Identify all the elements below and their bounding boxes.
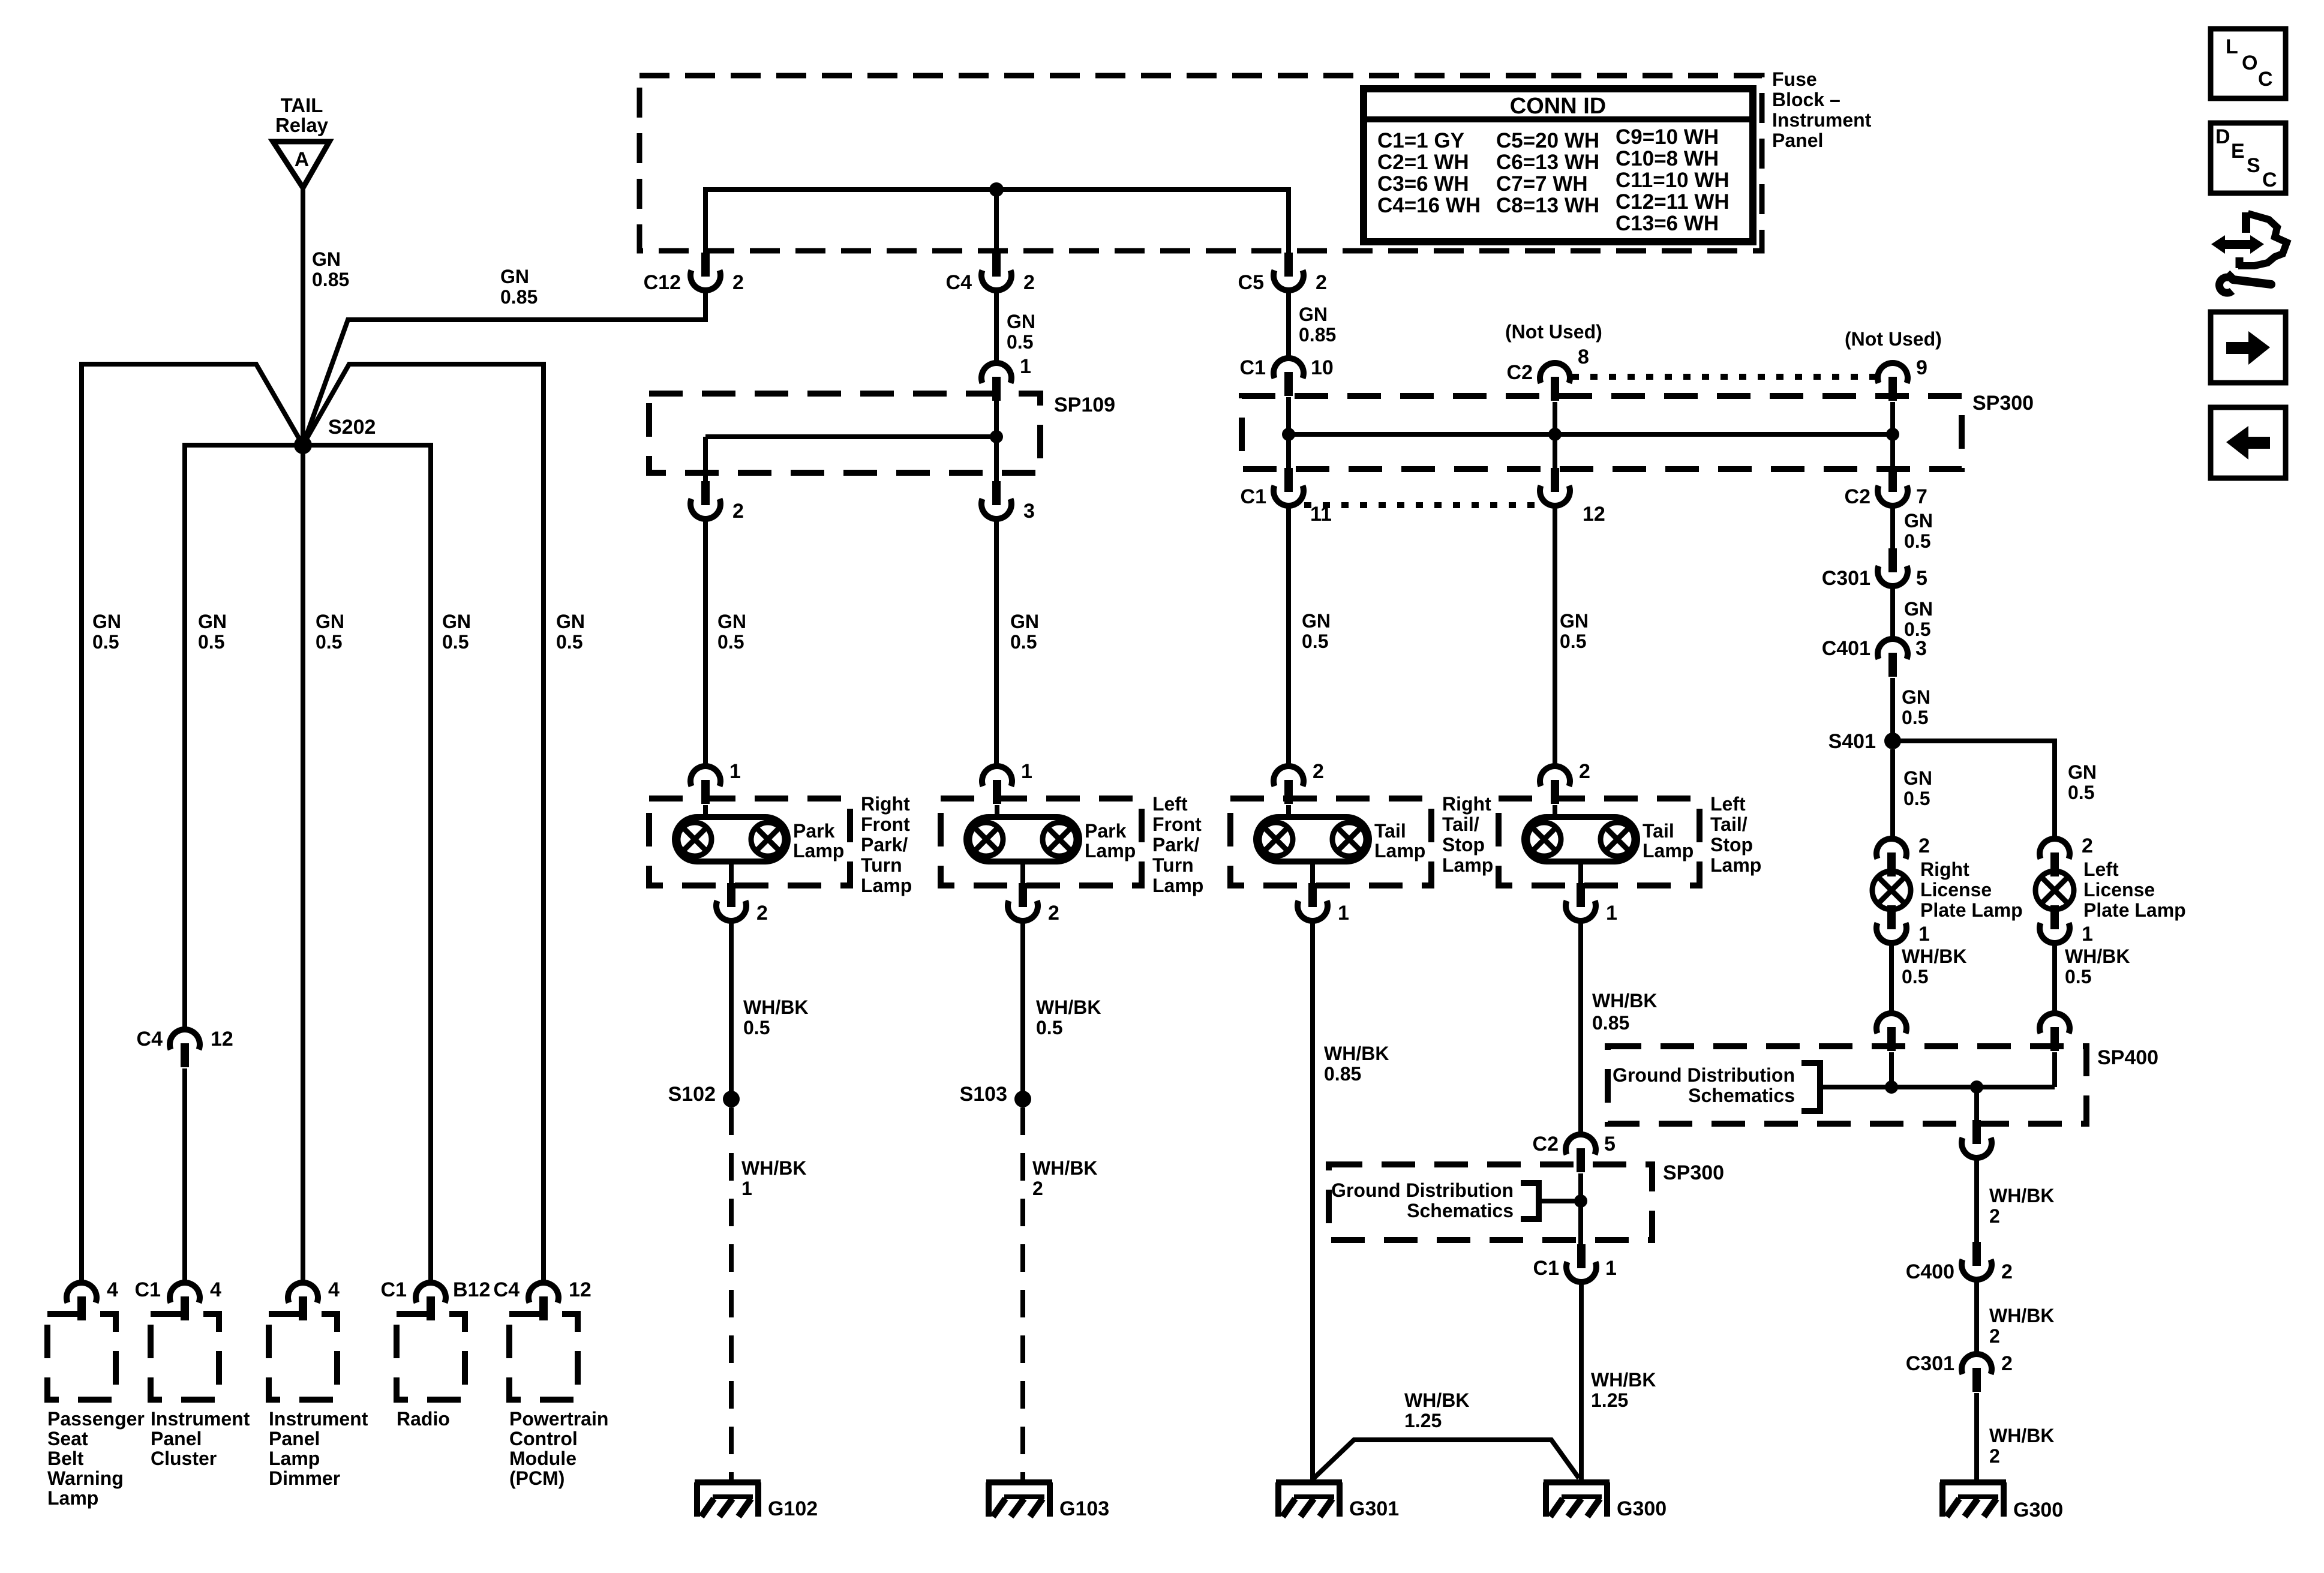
connector C2 pin 5 into SP300 <box>1566 1134 1596 1172</box>
svg-text:10: 10 <box>1311 356 1334 379</box>
svg-text:C1: C1 <box>1533 1257 1559 1280</box>
wire dotted not-used 11 to 12 <box>1304 502 1539 508</box>
svg-text:12: 12 <box>211 1028 233 1050</box>
label Tail Lamp <box>1374 820 1425 861</box>
junction in SP300 lower <box>1574 1194 1587 1208</box>
connector pin 1 out of Right License Plate Lamp <box>1876 905 1906 943</box>
connector pin 2 into Right License Plate Lamp <box>1876 839 1906 876</box>
wire dashed S103 to G103 <box>1020 1107 1025 1479</box>
wire dotted not-used 8 to 9 <box>1572 374 1876 380</box>
svg-text:Schematics: Schematics <box>1407 1200 1514 1221</box>
label Right Tail/Stop Lamp <box>1442 793 1493 876</box>
label SP300 <box>1663 1161 1724 1184</box>
component box Instrument Panel Cluster <box>151 1314 219 1400</box>
svg-text:2: 2 <box>732 500 744 523</box>
svg-text:Lamp: Lamp <box>1152 875 1203 896</box>
svg-text:Relay: Relay <box>275 114 329 136</box>
svg-text:0.5: 0.5 <box>1904 530 1930 552</box>
svg-text:Panel: Panel <box>151 1428 202 1449</box>
svg-text:Ground Distribution: Ground Distribution <box>1331 1179 1514 1201</box>
label GN 0.5 <box>1560 610 1589 652</box>
wire lamp lead-out <box>729 861 734 884</box>
label 4 <box>210 1278 221 1301</box>
svg-text:4: 4 <box>210 1278 221 1301</box>
table col2 entries <box>1496 129 1599 217</box>
label WH/BK 2 <box>1989 1185 2054 1227</box>
svg-text:0.5: 0.5 <box>1010 631 1037 653</box>
label SP400 <box>2097 1046 2158 1069</box>
svg-text:Instrument: Instrument <box>269 1408 368 1430</box>
label 1 <box>1021 760 1032 783</box>
table col1 entries <box>1377 129 1481 217</box>
svg-text:Tail/: Tail/ <box>1442 813 1479 835</box>
svg-text:Block –: Block – <box>1772 89 1840 110</box>
svg-text:L: L <box>2226 35 2238 58</box>
svg-text:2: 2 <box>1023 271 1035 294</box>
lamp Right License Plate Lamp <box>1872 871 1911 909</box>
wire SP400 to C400 <box>1974 1158 1979 1242</box>
svg-text:(PCM): (PCM) <box>509 1467 565 1489</box>
label C401 <box>1822 637 1870 660</box>
connector pin 1 into Right Front Park/Turn Lamp <box>690 766 720 804</box>
svg-text:C5: C5 <box>1238 271 1264 294</box>
wire SP109 internal bus <box>705 401 996 481</box>
svg-text:GN: GN <box>556 611 585 632</box>
svg-text:C4: C4 <box>494 1278 520 1301</box>
svg-text:1: 1 <box>729 760 741 783</box>
svg-text:Lamp: Lamp <box>1085 840 1136 861</box>
splice S102 <box>723 1091 740 1107</box>
svg-text:WH/BK: WH/BK <box>743 996 808 1018</box>
svg-text:2: 2 <box>1989 1445 2000 1467</box>
label C301 <box>1906 1352 1954 1375</box>
svg-text:0.85: 0.85 <box>500 286 538 308</box>
svg-text:License: License <box>2083 879 2155 900</box>
svg-text:S401: S401 <box>1828 730 1876 753</box>
svg-text:License: License <box>1920 879 1992 900</box>
svg-text:GN: GN <box>717 611 746 632</box>
label C5 <box>1238 271 1264 294</box>
connector SP109 pin 3 out <box>981 481 1011 519</box>
svg-text:0.5: 0.5 <box>1007 331 1033 353</box>
svg-text:Turn: Turn <box>1152 854 1194 876</box>
wire SP400 internal bus <box>1820 1052 2055 1120</box>
svg-text:C4: C4 <box>137 1028 163 1050</box>
wire Right License Plate Lamp to SP400 <box>1889 943 1894 1014</box>
label 5 <box>1604 1133 1616 1155</box>
label 1 <box>1918 923 1930 945</box>
wire SP109-2 to right park lamp <box>703 519 708 767</box>
connector pin 4 <box>67 1283 97 1320</box>
label Instrument Panel Cluster <box>151 1408 250 1469</box>
svg-text:C2: C2 <box>1533 1133 1559 1155</box>
svg-text:GN: GN <box>1904 598 1933 620</box>
splice pack SP300 lower (dashed box) <box>1329 1164 1652 1240</box>
svg-text:GN: GN <box>1560 610 1589 632</box>
label Fuse Block - Instrument Panel <box>1772 68 1872 151</box>
svg-text:2: 2 <box>1579 760 1590 783</box>
label Instrument Panel Lamp Dimmer <box>269 1408 368 1489</box>
svg-text:SP300: SP300 <box>1663 1161 1724 1184</box>
svg-text:Left: Left <box>1710 793 1746 815</box>
svg-text:C8=13 WH: C8=13 WH <box>1496 194 1599 217</box>
lamp Left Tail/Stop Lamp <box>1524 817 1637 861</box>
svg-text:Fuse: Fuse <box>1772 68 1817 90</box>
component box Right Tail/Stop Lamp <box>1230 798 1431 885</box>
label 2 <box>1023 271 1035 294</box>
svg-text:GN: GN <box>2068 761 2097 783</box>
svg-text:0.5: 0.5 <box>92 631 119 653</box>
svg-text:Plate Lamp: Plate Lamp <box>1920 899 2023 921</box>
label 2 <box>2001 1260 2013 1283</box>
svg-text:Belt: Belt <box>47 1448 84 1469</box>
svg-text:1: 1 <box>1605 1257 1617 1280</box>
connector pin 1 out of Left License Plate Lamp <box>2040 905 2070 943</box>
label 1 <box>1338 902 1349 924</box>
label 10 <box>1311 356 1334 379</box>
svg-text:E: E <box>2231 140 2245 163</box>
svg-text:WH/BK: WH/BK <box>1592 990 1657 1011</box>
wire SP300-11 to right tail lamp <box>1286 506 1291 767</box>
lamp Left License Plate Lamp <box>2035 871 2074 909</box>
svg-text:0.5: 0.5 <box>316 631 342 653</box>
label 4 <box>107 1278 118 1301</box>
svg-text:12: 12 <box>569 1278 591 1301</box>
svg-text:Lamp: Lamp <box>793 840 844 861</box>
junction in SP109 <box>990 430 1003 443</box>
label 2 <box>2001 1352 2013 1375</box>
svg-text:0.5: 0.5 <box>1560 631 1586 652</box>
connector C400 pin 2 <box>1962 1242 1992 1280</box>
svg-text:C5=20 WH: C5=20 WH <box>1496 129 1599 152</box>
label GN 0.5 <box>1902 686 1930 728</box>
label B12 <box>453 1278 490 1301</box>
connector pin 9 (not used) <box>1878 363 1908 401</box>
svg-text:Instrument: Instrument <box>151 1408 250 1430</box>
svg-text:5: 5 <box>1916 567 1927 590</box>
svg-text:S: S <box>2247 154 2260 177</box>
svg-text:2: 2 <box>2082 834 2093 857</box>
connector pin 4 <box>288 1283 318 1320</box>
svg-text:WH/BK: WH/BK <box>2065 945 2130 967</box>
connector pin 1 out of Left Tail/Stop Lamp <box>1566 883 1596 921</box>
wire S202 to Radio <box>303 445 431 1284</box>
wire left park lamp to S103 <box>1020 921 1025 1099</box>
svg-text:0.5: 0.5 <box>2065 966 2091 987</box>
label 2 <box>1313 760 1324 783</box>
svg-text:C4: C4 <box>946 271 972 294</box>
label (Not Used) <box>1505 321 1602 343</box>
svg-text:D: D <box>2215 125 2230 148</box>
svg-text:GN: GN <box>1903 767 1932 789</box>
label 12 <box>569 1278 591 1301</box>
label C1 <box>381 1278 407 1301</box>
svg-text:CONN ID: CONN ID <box>1510 94 1606 119</box>
table col3 entries <box>1616 125 1730 235</box>
svg-text:GN: GN <box>1904 510 1933 532</box>
icon back arrow box <box>2211 407 2286 478</box>
svg-text:C: C <box>2262 169 2277 191</box>
label GN 0.5 <box>92 611 121 653</box>
wire lamp lead-out <box>1578 861 1583 884</box>
svg-text:3: 3 <box>1023 500 1035 523</box>
label 1 <box>1606 902 1617 924</box>
ground G103 <box>986 1482 1052 1517</box>
wire GN 0.85 S202 to fuse block C12 <box>303 290 705 445</box>
component box Passenger Seat Belt Warning Lamp <box>47 1314 116 1400</box>
label Powertrain Control Module (PCM) <box>509 1408 608 1489</box>
svg-text:1: 1 <box>1020 355 1031 378</box>
wire C2-7 to C301-5 <box>1890 506 1895 548</box>
svg-text:S102: S102 <box>668 1083 716 1106</box>
svg-text:SP400: SP400 <box>2097 1046 2158 1069</box>
wire C4-2 down to SP109 <box>994 290 999 363</box>
svg-text:3: 3 <box>1915 637 1927 660</box>
label 11 <box>1310 503 1332 526</box>
label 12 <box>1583 503 1605 526</box>
wire C301-5 to C401-3 <box>1890 586 1895 639</box>
svg-text:1.25: 1.25 <box>1591 1389 1628 1411</box>
splice pack SP109 (dashed box) <box>649 394 1040 473</box>
svg-text:2: 2 <box>756 902 768 924</box>
svg-text:C1: C1 <box>1240 356 1266 379</box>
label 8 <box>1578 346 1589 368</box>
svg-text:Cluster: Cluster <box>151 1448 217 1469</box>
label GN 0.5 <box>1904 510 1933 552</box>
junction SP400 left <box>1885 1080 1898 1094</box>
svg-text:9: 9 <box>1916 356 1927 379</box>
svg-text:1: 1 <box>1606 902 1617 924</box>
svg-text:(Not Used): (Not Used) <box>1845 328 1942 350</box>
svg-text:Panel: Panel <box>269 1428 320 1449</box>
svg-text:0.5: 0.5 <box>1902 707 1928 728</box>
svg-text:Warning: Warning <box>47 1467 124 1489</box>
component box Right Front Park/Turn Lamp <box>649 798 850 885</box>
label WH/BK 1 <box>741 1157 806 1199</box>
svg-text:Lamp: Lamp <box>1442 854 1493 876</box>
svg-text:Lamp: Lamp <box>861 875 912 896</box>
label 2 <box>1048 902 1059 924</box>
svg-text:Seat: Seat <box>47 1428 88 1449</box>
svg-text:GN: GN <box>500 266 529 287</box>
wire lamp lead-in <box>995 805 999 819</box>
label Right Front Park/Turn Lamp <box>861 793 912 896</box>
svg-text:Lamp: Lamp <box>1374 840 1425 861</box>
svg-text:1: 1 <box>741 1178 752 1199</box>
fuse block - instrument panel (dashed box) <box>639 76 1762 251</box>
wire S401 to right license plate lamp <box>1890 749 1895 840</box>
wire left tail lamp to C2-5 <box>1578 921 1583 1134</box>
connector pin into SP400 <box>2040 1013 2070 1051</box>
svg-text:Right: Right <box>861 793 910 815</box>
label S103 <box>960 1083 1007 1106</box>
ground G300 rear <box>1940 1482 2006 1517</box>
label GN 0.85 <box>312 248 349 290</box>
wire WH/BK 1.25 ground tie G301 to G300 <box>1314 1440 1579 1478</box>
label 5 <box>1916 567 1927 590</box>
svg-text:Park: Park <box>793 820 835 842</box>
label 1 <box>729 760 741 783</box>
svg-text:2: 2 <box>1989 1205 2000 1227</box>
connector pin 12 out of SP300 <box>1540 468 1570 506</box>
svg-text:7: 7 <box>1916 485 1927 508</box>
svg-text:1: 1 <box>2082 923 2093 945</box>
svg-text:0.5: 0.5 <box>1903 788 1930 809</box>
svg-text:C401: C401 <box>1822 637 1870 660</box>
svg-text:Right: Right <box>1442 793 1491 815</box>
label S401 <box>1828 730 1876 753</box>
svg-text:2: 2 <box>1918 834 1930 857</box>
svg-text:SP109: SP109 <box>1054 394 1115 416</box>
svg-text:Tail: Tail <box>1643 820 1674 842</box>
svg-text:O: O <box>2242 52 2257 74</box>
wire lamp lead-in <box>1553 805 1557 819</box>
label 7 <box>1916 485 1927 508</box>
connector pin 2 out of Right Front Park/Turn Lamp <box>716 883 746 921</box>
relay A TAIL Relay symbol (triangle) <box>273 142 329 188</box>
svg-text:A: A <box>295 148 310 171</box>
label G102 <box>768 1497 818 1520</box>
svg-text:4: 4 <box>328 1278 340 1301</box>
connector pin 2 into Left Tail/Stop Lamp <box>1540 766 1570 804</box>
svg-text:4: 4 <box>107 1278 118 1301</box>
table CONN ID <box>1364 89 1753 242</box>
svg-text:Schematics: Schematics <box>1688 1085 1795 1106</box>
svg-text:WH/BK: WH/BK <box>1989 1185 2054 1206</box>
svg-text:0.85: 0.85 <box>1324 1063 1361 1085</box>
wire lamp lead-in <box>1286 805 1291 819</box>
svg-text:WH/BK: WH/BK <box>1032 1157 1097 1179</box>
svg-text:WH/BK: WH/BK <box>1404 1389 1469 1411</box>
svg-text:0.85: 0.85 <box>312 269 349 290</box>
connector pin into SP400 <box>1876 1013 1906 1051</box>
svg-text:0.5: 0.5 <box>2068 782 2094 803</box>
svg-text:Park/: Park/ <box>1152 834 1199 855</box>
label C4 <box>494 1278 520 1301</box>
svg-text:WH/BK: WH/BK <box>1902 945 1966 967</box>
label WH/BK 0.5 <box>2065 945 2130 987</box>
label 2 <box>732 500 744 523</box>
label Ground Distribution Schematics <box>1331 1179 1514 1221</box>
svg-text:1: 1 <box>1338 902 1349 924</box>
svg-text:WH/BK: WH/BK <box>1591 1369 1656 1391</box>
svg-text:Passenger: Passenger <box>47 1408 145 1430</box>
component box Left Front Park/Turn Lamp <box>941 798 1142 885</box>
svg-text:GN: GN <box>1007 311 1035 332</box>
svg-text:Panel: Panel <box>1772 130 1823 151</box>
label 9 <box>1916 356 1927 379</box>
label WH/BK 0.5 <box>1036 996 1101 1038</box>
label GN 0.5 <box>1010 611 1039 653</box>
svg-text:C1: C1 <box>135 1278 161 1301</box>
svg-text:2: 2 <box>2001 1352 2013 1375</box>
label C2 <box>1533 1133 1559 1155</box>
svg-text:WH/BK: WH/BK <box>1324 1043 1389 1064</box>
connector pin 12 <box>529 1283 559 1320</box>
splice S103 <box>1014 1091 1031 1107</box>
label WH/BK 0.85 <box>1592 990 1657 1034</box>
label C4 <box>137 1028 163 1050</box>
svg-text:2: 2 <box>1989 1325 2000 1347</box>
connector pin 2 out of Left Front Park/Turn Lamp <box>1008 883 1038 921</box>
wire SP109-3 to left park lamp <box>994 519 999 767</box>
svg-text:C3=6 WH: C3=6 WH <box>1377 172 1469 196</box>
connector pin 4 <box>170 1283 200 1320</box>
label 3 <box>1915 637 1927 660</box>
wire lamp lead-out <box>1310 861 1315 884</box>
svg-text:C12: C12 <box>644 271 681 294</box>
connector C1 pin 10 into SP300 <box>1274 358 1304 396</box>
svg-text:Instrument: Instrument <box>1772 109 1872 131</box>
junction on fuse bus <box>989 182 1004 197</box>
wire right tail lamp to G301 <box>1310 921 1315 1479</box>
label SP300 <box>1972 392 2034 415</box>
svg-text:GN: GN <box>1010 611 1039 632</box>
wire C401-3 to S401 <box>1890 678 1895 741</box>
label WH/BK 2 <box>1032 1157 1097 1199</box>
label 2 <box>756 902 768 924</box>
label C12 <box>644 271 681 294</box>
connector pin 1 into SP109 <box>981 363 1011 401</box>
svg-text:C7=7 WH: C7=7 WH <box>1496 172 1588 196</box>
wire C400 to C301-2 <box>1974 1280 1979 1354</box>
svg-text:2: 2 <box>1313 760 1324 783</box>
svg-text:Front: Front <box>1152 813 1202 835</box>
relay label TAIL Relay <box>275 94 329 136</box>
junction SP300 left <box>1282 428 1295 441</box>
label (Not Used) <box>1845 328 1942 350</box>
junction SP400 right <box>1970 1080 1983 1094</box>
wire C1-1 to G300 <box>1579 1282 1584 1479</box>
svg-text:B12: B12 <box>453 1278 490 1301</box>
svg-text:G300: G300 <box>2013 1499 2063 1521</box>
label C400 <box>1906 1260 1954 1283</box>
wire fuse block bus <box>705 190 1289 253</box>
label SP109 <box>1054 394 1115 416</box>
label 2 <box>2082 834 2093 857</box>
splice pack SP400 (dashed box) <box>1608 1046 2086 1124</box>
svg-text:0.5: 0.5 <box>1036 1017 1062 1038</box>
wire Left License Plate Lamp to SP400 <box>2052 943 2057 1014</box>
label C301 <box>1822 567 1870 590</box>
label 12 <box>211 1028 233 1050</box>
svg-text:GN: GN <box>1902 686 1930 708</box>
label GN 0.85 (to C12) <box>500 266 538 308</box>
wire S401 branch to left license plate lamp <box>1893 741 2055 840</box>
wire S202 down to Instrument Panel Lamp Dimmer <box>301 445 305 1284</box>
wire right park lamp to S102 <box>729 921 734 1099</box>
svg-text:1: 1 <box>1918 923 1930 945</box>
component box Radio <box>397 1314 465 1400</box>
label C2 <box>1845 485 1870 508</box>
label Left Front Park/Turn Lamp <box>1152 793 1203 896</box>
connector C4 pin 12 (Instrument Panel Cluster) <box>170 1029 200 1067</box>
svg-text:GN: GN <box>1302 610 1331 632</box>
svg-text:8: 8 <box>1578 346 1589 368</box>
lamp Right Tail/Stop Lamp <box>1256 817 1369 861</box>
connector C1 pin 1 out of SP300 <box>1566 1244 1596 1282</box>
svg-text:C: C <box>2258 68 2273 91</box>
wire S202 to Instrument Panel Cluster <box>185 445 303 1029</box>
connector pin B12 <box>416 1283 446 1320</box>
svg-text:GN: GN <box>316 611 344 632</box>
label 3 <box>1023 500 1035 523</box>
svg-text:Front: Front <box>861 813 910 835</box>
connector C4 pin 2 (fuse block output) <box>981 253 1011 290</box>
junction SP300 mid <box>1548 428 1562 441</box>
connector C2 pin 7 out of SP300 <box>1878 468 1908 506</box>
svg-text:WH/BK: WH/BK <box>741 1157 806 1179</box>
